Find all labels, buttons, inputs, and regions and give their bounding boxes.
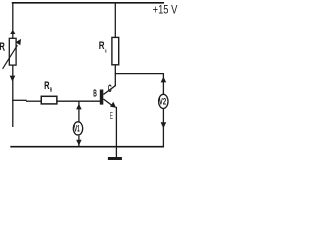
svg-text:+15 V: +15 V xyxy=(153,3,178,17)
wire: bottom rail xyxy=(10,146,164,148)
svg-text:B: B xyxy=(50,88,52,94)
potentiometer wiper arrow xyxy=(3,39,21,69)
svg-text:R: R xyxy=(44,80,49,92)
voltmeter V2 xyxy=(159,94,168,108)
potentiometer R body xyxy=(9,38,16,65)
label R (potentiometer) xyxy=(0,41,5,53)
wire: V2 bottom to rail xyxy=(162,109,164,147)
wire: V1 to bottom rail xyxy=(78,136,80,147)
wire: V2 branch top xyxy=(162,74,164,94)
svg-text:V2: V2 xyxy=(159,97,166,107)
wire: left vertical from top rail to potentiometer xyxy=(12,2,14,38)
wire: RC bottom to collector xyxy=(114,65,116,86)
svg-text:c: c xyxy=(105,49,107,55)
ground bar xyxy=(108,157,122,160)
wire: collector node to V2 branch xyxy=(115,73,164,75)
arrowhead down on lower potentiometer lead xyxy=(10,76,16,82)
transistor Q1 emitter lead xyxy=(103,99,116,108)
wire: +15V top rail xyxy=(12,2,164,4)
resistor RC body xyxy=(112,37,119,64)
label RC xyxy=(99,40,107,55)
wire: RC top lead from rail xyxy=(114,2,116,37)
svg-text:E: E xyxy=(110,111,113,122)
transistor Q1 base bar xyxy=(100,90,104,105)
label RB xyxy=(44,80,52,94)
wire: V1 branch down from base node xyxy=(78,101,80,122)
arrowhead down at V1 bottom xyxy=(76,140,81,146)
svg-text:V1: V1 xyxy=(74,123,80,133)
arrowhead up on potentiometer top lead xyxy=(10,30,15,34)
resistor RB body xyxy=(41,96,57,104)
arrowhead down on V2 bottom xyxy=(161,122,167,128)
svg-text:R: R xyxy=(99,40,105,52)
svg-text:C: C xyxy=(108,83,112,95)
arrowhead up on V1 branch xyxy=(76,104,82,110)
wire: base branch horizontal to RB xyxy=(12,99,26,101)
wire: emitter down to ground xyxy=(115,107,117,158)
wire below potentiometer xyxy=(12,65,14,127)
svg-text:B: B xyxy=(93,89,97,100)
arrowhead up on V2 branch xyxy=(161,77,167,83)
transistor Q1 collector lead xyxy=(103,85,115,94)
wire: RB to transistor base xyxy=(57,100,100,102)
voltmeter V1 xyxy=(73,122,82,135)
